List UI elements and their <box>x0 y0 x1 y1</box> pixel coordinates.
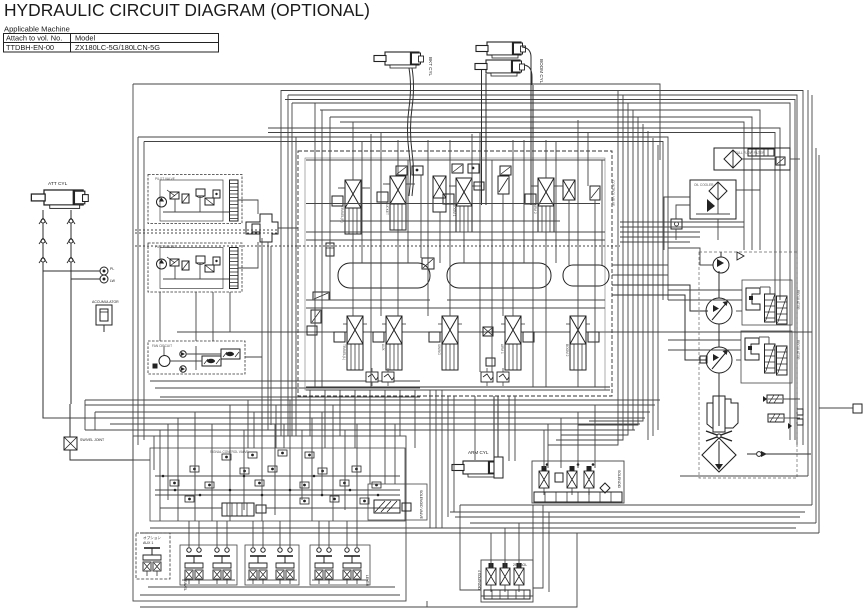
svg-text:AUX: AUX <box>381 344 385 351</box>
wire bottom right nested corners <box>140 476 819 533</box>
relief pair lower B <box>481 368 509 386</box>
wire horizontal mesh lines <box>43 400 660 460</box>
svg-text:TRAVEL: TRAVEL <box>183 578 187 591</box>
check small box on return line <box>671 219 682 229</box>
table <box>4 34 219 53</box>
svg-text:Model: Model <box>75 34 95 43</box>
wire vertical bundle between valve and pumps <box>548 90 658 445</box>
svg-text:Applicable Machine: Applicable Machine <box>4 25 70 34</box>
top small valve C <box>500 166 511 175</box>
regulator block 1 <box>742 280 792 325</box>
engine <box>707 396 738 432</box>
pilot valve box 2 (dashed) <box>148 243 242 292</box>
pilot box 3 (fan circuit, dashed) <box>148 341 245 374</box>
svg-text:TRAVEL(R): TRAVEL(R) <box>340 206 344 223</box>
spool section 3 lower <box>429 316 462 370</box>
small valve mid (swing) <box>433 176 446 212</box>
main pump 2 (lower) <box>700 347 732 373</box>
small sub valve right of boom <box>498 176 509 194</box>
wire signal bus lines <box>155 476 400 508</box>
wire spool port stubs <box>338 184 563 188</box>
svg-text:AUX 1: AUX 1 <box>143 541 153 545</box>
svg-text:SIGNAL CONTROL VALVE: SIGNAL CONTROL VALVE <box>210 450 249 454</box>
spool section 3 upper (boom) <box>443 178 484 232</box>
relief pair lower A <box>366 368 394 386</box>
pilot area outer box <box>133 436 406 601</box>
wire pump suction lines <box>719 252 811 454</box>
check valve att line 2b <box>67 238 75 244</box>
check valve att line 2a <box>67 218 75 224</box>
small accumulator top left of gallery <box>326 243 334 256</box>
svg-text:OIL COOLER: OIL COOLER <box>694 183 714 187</box>
pilot filter box top right <box>714 148 790 170</box>
svg-text:PL: PL <box>110 267 114 271</box>
swivel joint box <box>64 437 105 450</box>
svg-text:BOOM CYL: BOOM CYL <box>539 59 544 84</box>
wire left frame bottoms <box>85 400 133 460</box>
solenoid valve 3 <box>584 466 594 495</box>
main relief center <box>422 258 434 269</box>
svg-text:オプション: オプション <box>143 535 161 540</box>
check valve att line 1c <box>39 257 47 263</box>
oil cooler box <box>690 180 736 219</box>
accumulator block <box>92 300 119 332</box>
gauge couplers twin circles <box>43 267 116 283</box>
wire att lines down <box>42 210 44 398</box>
bucket cylinder BKT CYL <box>374 52 433 77</box>
svg-text:ACCUMULATOR: ACCUMULATOR <box>92 300 119 304</box>
wire left vertical to swivel <box>69 404 71 437</box>
pump unit boundary dashed <box>699 252 797 478</box>
solenoid valve unit (5 spool) <box>532 461 624 503</box>
wire att bottom joins <box>43 398 105 418</box>
small relief in box <box>776 157 785 165</box>
signal manifold box <box>150 448 405 521</box>
svg-text:ZX180LC-5G/180LCN-5G: ZX180LC-5G/180LCN-5G <box>75 43 160 52</box>
wire boom cylinder lines <box>481 70 483 205</box>
svg-text:PILOT VALVE: PILOT VALVE <box>155 177 175 181</box>
shuttle row 4 <box>185 496 369 504</box>
svg-text:BKT CYL: BKT CYL <box>428 57 433 77</box>
check valve att line 1b <box>39 238 47 244</box>
wire connector downfeeds <box>135 230 278 436</box>
wire manifold verticals <box>154 400 395 521</box>
washer unit box right <box>368 484 427 520</box>
attachment cylinder ATT CYL <box>31 181 88 208</box>
tiny component labels (texture) <box>152 151 800 454</box>
arrow into tank <box>737 252 744 260</box>
svg-text:FAN CIRCUIT: FAN CIRCUIT <box>152 344 172 348</box>
boom cylinder upper <box>476 42 526 58</box>
wire pump delivery lines <box>612 285 708 311</box>
svg-text:CONTROL VALVE: CONTROL VALVE <box>611 180 615 206</box>
top small valve pair B <box>452 164 479 173</box>
svg-text:TTDBH-EN-00: TTDBH-EN-00 <box>6 43 54 52</box>
wire pilot area bottom border double <box>140 587 400 595</box>
wire pilot box links <box>238 200 258 214</box>
wire frame H left <box>143 142 145 441</box>
check valve att line 2c <box>67 257 75 263</box>
wire horizontal dashed bundle mid right <box>135 222 744 246</box>
shuttle row 3 <box>170 480 381 488</box>
wire frame A left <box>132 84 134 436</box>
spool section 5 lower <box>566 316 599 370</box>
filter diamond in box <box>724 150 742 168</box>
wire cooler connections <box>664 148 800 250</box>
center small box with X <box>483 327 495 366</box>
pressure port tiny box right edge <box>819 404 862 413</box>
spool section 1 upper (travel right) <box>332 180 365 234</box>
svg-text:SOLENOID: SOLENOID <box>617 470 621 489</box>
small solenoid c <box>514 563 524 592</box>
bottom bus lines of main valve <box>306 386 610 388</box>
arm cylinder ARM CYL <box>452 450 503 478</box>
solenoid valve 2 <box>567 466 577 495</box>
proportional valve right 1 <box>763 395 803 415</box>
pedal group 1 (travel) <box>180 545 237 591</box>
shuttle row 1 <box>222 450 314 460</box>
suction strainer diamond <box>702 438 736 472</box>
wire frame B <box>281 91 803 446</box>
gallery small <box>563 265 609 286</box>
svg-text:LW: LW <box>110 279 116 283</box>
svg-text:REGULATOR: REGULATOR <box>796 340 800 360</box>
fan <box>706 431 732 441</box>
svg-text:HYDRAULIC CIRCUIT DIAGRAM (OPT: HYDRAULIC CIRCUIT DIAGRAM (OPTIONAL) <box>4 0 370 20</box>
pilot pump <box>713 257 729 273</box>
svg-text:BOOM 2: BOOM 2 <box>565 344 569 357</box>
shuttle row 2 <box>190 466 361 474</box>
wire horizontals inside valve <box>306 160 668 308</box>
diamond check <box>600 483 610 493</box>
main pump 1 (upper) <box>706 298 732 324</box>
wire pilot box2 to box3 <box>160 292 230 341</box>
small valve far right (aux) <box>563 180 575 200</box>
wire vertical drops from valve <box>310 390 515 528</box>
svg-text:SOLENOID VALVE: SOLENOID VALVE <box>419 490 423 520</box>
proportional valve right 2 <box>768 414 803 429</box>
gallery rounded left <box>338 263 430 288</box>
boom cylinder lower <box>475 59 544 84</box>
svg-text:SWING: SWING <box>437 344 441 355</box>
wire frame E <box>268 128 780 300</box>
wire frame D <box>292 103 790 440</box>
wire bundle left of valve going down <box>248 90 296 448</box>
gallery rounded right <box>447 263 551 288</box>
wire regulator pilot lines <box>668 290 742 360</box>
wire frame H <box>144 142 663 301</box>
svg-text:TRAVEL(L): TRAVEL(L) <box>342 344 346 360</box>
svg-text:ARM 2: ARM 2 <box>533 204 537 214</box>
wire bucket cylinder hose (wavy) <box>408 68 411 196</box>
solenoid valve 1 <box>539 466 549 495</box>
left edge small valves <box>307 292 329 335</box>
spool section 4 upper (arm) <box>525 178 558 232</box>
wire frame A <box>133 84 660 160</box>
wire right frame verticals <box>808 90 819 533</box>
junction dots on bus <box>162 475 380 497</box>
svg-text:ATT CYL: ATT CYL <box>48 181 68 187</box>
spool section 4 lower <box>501 316 534 370</box>
bottom manifold cells <box>534 492 622 502</box>
svg-text:ARM 1: ARM 1 <box>500 344 504 354</box>
svg-text:LEVER: LEVER <box>365 575 369 587</box>
wire vertical mesh inside valve <box>315 103 602 387</box>
svg-text:ARM CYL: ARM CYL <box>468 450 489 455</box>
svg-text:SWIVEL JOINT: SWIVEL JOINT <box>80 438 105 442</box>
wire arm cyl feeds <box>493 396 495 457</box>
breather stack <box>748 149 774 156</box>
spool section 1 lower <box>334 316 367 370</box>
svg-text:REGULATOR: REGULATOR <box>796 290 800 310</box>
wire pedal group risers <box>189 521 357 547</box>
port circles above pedal groups <box>187 548 359 552</box>
svg-text:BOOM 1: BOOM 1 <box>452 204 456 217</box>
small solenoid b <box>500 563 510 592</box>
spool section 2 upper (bucket) <box>377 176 410 230</box>
shuttle manifold cluster <box>222 503 266 516</box>
check valve att line 1a <box>39 218 47 224</box>
wire frame C <box>288 95 797 445</box>
wire frame G <box>138 137 668 300</box>
top small valve pair A <box>396 166 423 175</box>
wire box3 exits <box>150 332 812 397</box>
wire solenoid unit feeds <box>544 405 595 468</box>
pedal group 2 <box>245 545 299 585</box>
wire bottom box feeds <box>140 505 577 607</box>
svg-text:Attach to vol. No.: Attach to vol. No. <box>6 34 62 43</box>
small solenoid a <box>486 563 496 592</box>
svg-text:4 SOLENOID: 4 SOLENOID <box>477 570 481 590</box>
quick coupler on return <box>757 451 767 457</box>
control valve boundary (dashed) <box>298 151 612 396</box>
pilot valve box 1 (dashed) <box>148 175 242 224</box>
wire frame G left <box>137 137 139 445</box>
spool section 2 lower <box>373 316 406 370</box>
regulator block 2 <box>741 331 792 383</box>
bottom cells <box>484 590 530 599</box>
pedal group 3 <box>310 545 370 587</box>
relief small right edge <box>590 186 600 200</box>
svg-text:FULL FLOW FILTER: FULL FLOW FILTER <box>735 151 765 155</box>
connector manifold between boxes <box>246 214 278 242</box>
wire frame F <box>268 133 775 301</box>
dashed aux pilot box BKT <box>136 533 170 579</box>
